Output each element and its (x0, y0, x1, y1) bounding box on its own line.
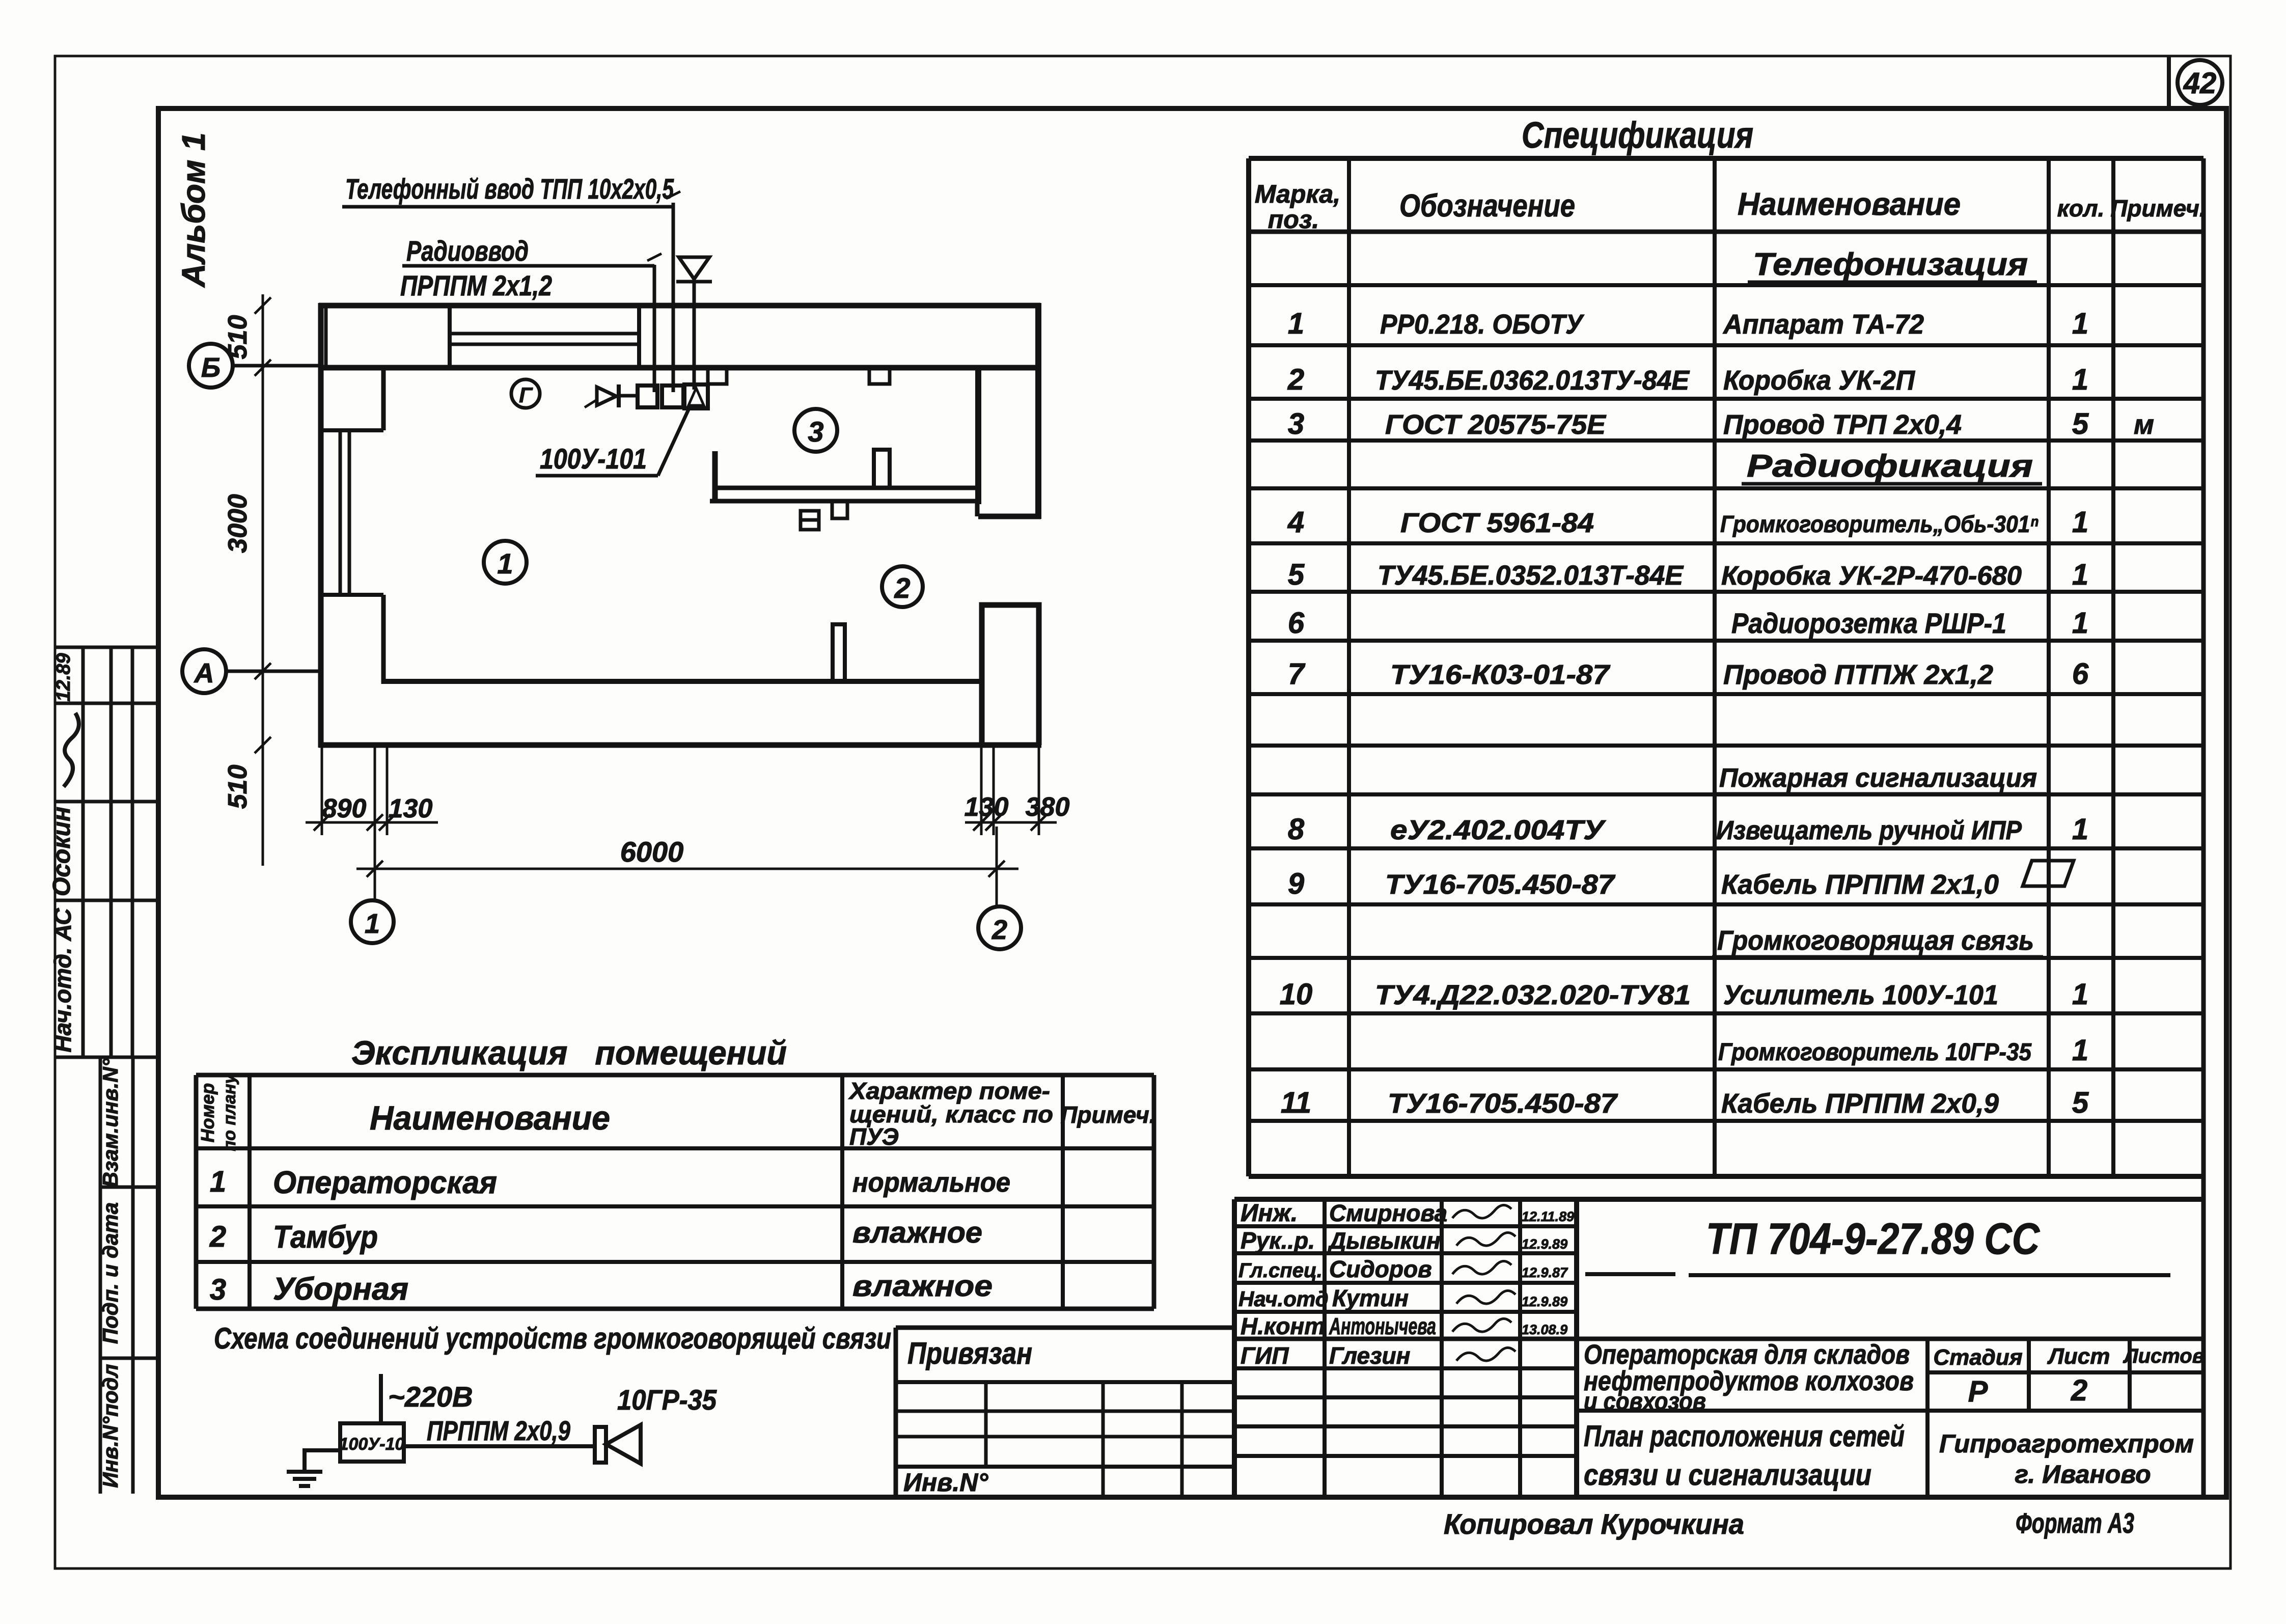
svg-text:Телефонизация: Телефонизация (1753, 247, 2028, 282)
svg-text:ТУ45.БЕ.0362.013ТУ-84Е: ТУ45.БЕ.0362.013ТУ-84Е (1375, 365, 1690, 396)
svg-text:380: 380 (1026, 792, 1070, 822)
svg-text:Экспликация помещений: Экспликация помещений (351, 1034, 787, 1071)
amplifier 100У-101 box (340, 1423, 404, 1462)
svg-text:м: м (2134, 409, 2154, 440)
svg-text:Нач.отд: Нач.отд (1238, 1287, 1329, 1311)
svg-text:1: 1 (2072, 978, 2088, 1011)
svg-text:ГОСТ 20575-75Е: ГОСТ 20575-75Е (1385, 409, 1607, 440)
wall: top exterior inner face (axis Б) (319, 365, 1040, 371)
svg-text:Схема соединений устройств гро: Схема соединений устройств громкоговорящ… (214, 1322, 891, 1355)
svg-text:1: 1 (2072, 307, 2088, 340)
svg-text:Инв.N°: Инв.N° (903, 1468, 988, 1497)
wall: right exterior (1035, 303, 1041, 519)
svg-text:Аппарат ТА-72: Аппарат ТА-72 (1722, 309, 1924, 340)
svg-text:5: 5 (2072, 407, 2089, 441)
box УК 3 with speaker (684, 384, 708, 408)
wall: top exterior outer face (319, 303, 1040, 309)
svg-text:Марка,: Марка, (1255, 180, 1340, 208)
svg-text:ТУ16-705.450-87: ТУ16-705.450-87 (1385, 869, 1616, 900)
svg-text:Громкоговоритель„Обь-301ⁿ: Громкоговоритель„Обь-301ⁿ (1720, 511, 2039, 537)
partition: room 3 east (975, 368, 981, 504)
svg-text:100У-101: 100У-101 (540, 443, 647, 475)
svg-text:Н.конт: Н.конт (1241, 1313, 1325, 1339)
svg-text:Глезин: Глезин (1329, 1342, 1410, 1369)
svg-text:~220В: ~220В (388, 1381, 473, 1413)
svg-text:Провод ТРП 2х0,4: Провод ТРП 2х0,4 (1723, 409, 1962, 440)
svg-text:Формат А3: Формат А3 (2016, 1507, 2134, 1539)
loudspeaker 10ГР-35 symbol (595, 1425, 641, 1464)
svg-text:130: 130 (965, 792, 1009, 822)
wall joint left top (324, 306, 328, 368)
svg-text:Провод ПТПЖ 2х1,2: Провод ПТПЖ 2х1,2 (1723, 659, 1993, 690)
left label cells grid (100, 1057, 158, 1494)
svg-text:Б: Б (201, 352, 221, 383)
svg-text:Операторская для складов: Операторская для складов (1584, 1339, 1910, 1370)
svg-text:10ГР-35: 10ГР-35 (617, 1384, 717, 1416)
svg-text:ГИП: ГИП (1241, 1342, 1289, 1369)
svg-text:Дывыкин: Дывыкин (1327, 1227, 1441, 1254)
svg-text:ПУЭ: ПУЭ (849, 1123, 899, 1150)
svg-text:Гипроагротехпром: Гипроагротехпром (1939, 1429, 2194, 1458)
svg-text:4: 4 (1287, 506, 1304, 539)
telephone symbol (597, 387, 616, 405)
left stamp grid (55, 647, 158, 1057)
svg-text:1: 1 (2072, 363, 2088, 396)
svg-text:Стадия: Стадия (1933, 1345, 2022, 1370)
svg-text:Извещатель ручной ИПР: Извещатель ручной ИПР (1716, 816, 2022, 845)
axis circle Г (511, 379, 540, 408)
svg-text:Осокин: Осокин (48, 807, 75, 896)
stamp signature squiggle (64, 713, 79, 787)
svg-text:5: 5 (1288, 558, 1305, 591)
signature squiggles (1452, 1205, 1511, 1218)
svg-text:2: 2 (894, 572, 910, 604)
svg-text:Копировал Курочкина: Копировал Курочкина (1444, 1508, 1744, 1540)
partition jog to corridor bottom (975, 501, 980, 516)
svg-text:Громкоговорящая связь: Громкоговорящая связь (1717, 925, 2034, 956)
svg-text:ПРППМ 2х1,2: ПРППМ 2х1,2 (400, 269, 552, 301)
svg-text:Листов: Листов (2123, 1345, 2205, 1367)
svg-text:кол.: кол. (2057, 195, 2105, 222)
svg-text:Пожарная сигнализация: Пожарная сигнализация (1719, 763, 2037, 793)
svg-text:1: 1 (1288, 307, 1304, 340)
svg-text:6: 6 (1288, 607, 1305, 640)
svg-text:12.89: 12.89 (53, 653, 74, 701)
svg-text:Кутин: Кутин (1332, 1285, 1409, 1311)
svg-text:1: 1 (2072, 1034, 2088, 1067)
svg-text:3000: 3000 (223, 494, 253, 553)
partition: room 3 south upper line (715, 486, 978, 490)
door notch top wall A (708, 368, 727, 384)
svg-text:1: 1 (210, 1165, 226, 1198)
door notch top wall B (869, 368, 890, 384)
svg-text:ТУ4.Д22.032.020-ТУ81: ТУ4.Д22.032.020-ТУ81 (1375, 980, 1691, 1010)
drawing frame (158, 108, 2226, 1497)
loudspeaker symbol plan (679, 257, 709, 279)
svg-text:Телефонный ввод ТПП 10х2х0,5: Телефонный ввод ТПП 10х2х0,5 (345, 173, 674, 205)
svg-text:нормальное: нормальное (852, 1167, 1010, 1198)
stall pier room 3 (874, 450, 890, 488)
svg-text:Антонычева: Антонычева (1329, 1313, 1436, 1339)
svg-text:и совхозов: и совхозов (1584, 1388, 1706, 1415)
svg-text:12.9.89: 12.9.89 (1522, 1294, 1567, 1309)
window jamb top wall left (448, 306, 452, 368)
svg-text:Кабель ПРППМ 2х0,9: Кабель ПРППМ 2х0,9 (1721, 1088, 1999, 1119)
svg-text:Коробка УК-2Р-470-680: Коробка УК-2Р-470-680 (1721, 561, 2022, 591)
parallelogram symbol kol row 9 (2023, 861, 2074, 886)
svg-text:Рук..р.: Рук..р. (1241, 1227, 1315, 1254)
svg-text:1: 1 (2072, 813, 2088, 846)
right part cells (1925, 1339, 1930, 1497)
svg-text:Г: Г (519, 383, 533, 407)
svg-text:План расположения сетей: План расположения сетей (1584, 1420, 1905, 1453)
svg-text:Нач.отд. АС: Нач.отд. АС (49, 908, 76, 1053)
svg-text:Р: Р (1968, 1375, 1988, 1408)
svg-text:Характер поме-: Характер поме- (848, 1078, 1050, 1104)
wire to ground (305, 1450, 340, 1472)
window jamb top wall right (637, 306, 641, 368)
signature rows (1234, 1224, 1577, 1228)
spec grid horizontals (1249, 156, 2204, 161)
wall: corridor bottom (978, 514, 1041, 519)
wire amplifier to loudspeaker (404, 1444, 597, 1448)
svg-text:Привязан: Привязан (907, 1336, 1032, 1370)
signature columns (1323, 1199, 1327, 1497)
svg-text:ТУ16-705.450-87: ТУ16-705.450-87 (1388, 1088, 1618, 1119)
pier stub room 2 (833, 624, 845, 681)
svg-text:Уборная: Уборная (273, 1272, 408, 1307)
svg-text:1: 1 (2072, 558, 2088, 591)
svg-text:Смирнова: Смирнова (1329, 1200, 1447, 1226)
svg-text:6: 6 (2072, 657, 2089, 691)
svg-text:Гл.спец.: Гл.спец. (1238, 1259, 1323, 1282)
svg-text:поз.: поз. (1268, 205, 1319, 234)
svg-text:Номер: Номер (197, 1083, 218, 1143)
porch walls bottom right (982, 605, 1039, 745)
svg-text:еУ2.402.004ТУ: еУ2.402.004ТУ (1390, 815, 1606, 845)
box УК 1 (638, 386, 657, 407)
svg-text:9: 9 (1288, 867, 1304, 900)
wall: left exterior inner face upper (381, 368, 386, 430)
room circle 1 (484, 541, 527, 584)
svg-text:Подп. и дата: Подп. и дата (98, 1202, 122, 1344)
svg-text:Наименование: Наименование (370, 1099, 610, 1137)
axis circle Б (189, 344, 321, 388)
explication grid (196, 1073, 1154, 1078)
riser top ticks (666, 191, 680, 199)
sheet number circle 42 (2178, 60, 2222, 105)
svg-text:РР0.218. ОБОТУ: РР0.218. ОБОТУ (1380, 309, 1584, 340)
svg-text:7: 7 (1288, 657, 1306, 691)
svg-text:3: 3 (808, 416, 823, 448)
svg-text:1: 1 (365, 909, 380, 939)
svg-text:Лист: Лист (2047, 1344, 2110, 1369)
svg-text:г. Иваново: г. Иваново (2015, 1460, 2151, 1489)
svg-text:ГОСТ 5961-84: ГОСТ 5961-84 (1400, 508, 1594, 538)
svg-text:Наименование: Наименование (1738, 187, 1961, 222)
left dimension chain line (255, 294, 271, 866)
window glazing left wall (339, 430, 342, 595)
svg-text:10: 10 (1280, 978, 1313, 1011)
svg-text:2: 2 (1287, 363, 1304, 396)
svg-text:1: 1 (2072, 607, 2088, 640)
svg-text:Радиорозетка РШР-1: Радиорозетка РШР-1 (1731, 607, 2006, 639)
wall: left exterior inner face lower (381, 595, 386, 684)
svg-text:А: А (194, 658, 214, 689)
svg-text:890: 890 (322, 794, 367, 823)
svg-text:Сидоров: Сидоров (1329, 1256, 1432, 1282)
axis circle 2 bottom (978, 906, 1021, 949)
svg-text:Альбом 1: Альбом 1 (175, 132, 212, 288)
loudspeaker stem (693, 283, 696, 390)
window glazing top wall (450, 332, 639, 336)
svg-text:Коробка УК-2П: Коробка УК-2П (1723, 365, 1915, 396)
svg-text:влажное: влажное (852, 1270, 993, 1303)
svg-text:ТП 704-9-27.89 СС: ТП 704-9-27.89 СС (1706, 1215, 2041, 1263)
svg-text:ПРППМ 2х0,9: ПРППМ 2х0,9 (427, 1416, 570, 1446)
sheet number box (2167, 56, 2171, 108)
svg-text:11: 11 (1281, 1086, 1311, 1119)
svg-text:12.9.87: 12.9.87 (1522, 1265, 1568, 1280)
svg-text:42: 42 (2183, 67, 2217, 100)
wire 220V (379, 1374, 383, 1423)
svg-text:100У-10: 100У-10 (339, 1435, 405, 1454)
svg-text:2: 2 (209, 1220, 226, 1253)
svg-text:13.08.9: 13.08.9 (1522, 1322, 1567, 1337)
wall: bottom interior face (383, 679, 980, 684)
svg-text:510: 510 (223, 765, 253, 809)
wire telephone to box (620, 394, 638, 398)
ground symbol (287, 1472, 322, 1486)
svg-text:по плану: по плану (220, 1073, 239, 1151)
svg-text:Тамбур: Тамбур (273, 1220, 378, 1255)
svg-text:510: 510 (223, 315, 253, 360)
svg-text:ТУ16-К03-01-87: ТУ16-К03-01-87 (1390, 659, 1611, 690)
svg-text:12.9.89: 12.9.89 (1522, 1236, 1567, 1252)
svg-text:Спецификация: Спецификация (1522, 115, 1753, 156)
svg-text:12.11.89: 12.11.89 (1522, 1209, 1574, 1224)
svg-text:ТУ45.БЕ.0352.013Т-84Е: ТУ45.БЕ.0352.013Т-84Е (1378, 560, 1684, 591)
svg-text:5: 5 (2072, 1086, 2089, 1119)
window jamb left wall top (321, 428, 383, 432)
svg-text:3: 3 (1288, 407, 1304, 441)
wall: left exterior outer face (318, 303, 324, 748)
svg-text:Обозначение: Обозначение (1399, 188, 1575, 224)
window jamb left wall bottom (321, 593, 383, 597)
radio socket symbol РШР-1 (801, 511, 819, 530)
svg-text:2: 2 (2071, 1374, 2087, 1407)
svg-text:Примеч.: Примеч. (2110, 195, 2206, 222)
svg-text:Усилитель 100У-101: Усилитель 100У-101 (1723, 980, 1998, 1010)
svg-text:Примеч.: Примеч. (1060, 1102, 1155, 1128)
svg-text:Инв.N°подл: Инв.N°подл (98, 1364, 122, 1488)
svg-text:2: 2 (991, 915, 1007, 945)
bottom dimension extension lines (306, 745, 1057, 907)
svg-text:3: 3 (210, 1273, 226, 1306)
partition: room 3 west stub (712, 451, 718, 501)
svg-text:связи и сигнализации: связи и сигнализации (1584, 1458, 1871, 1492)
axis circle 1 bottom (351, 900, 394, 943)
svg-text:1: 1 (2072, 506, 2088, 539)
svg-text:Радиофикация: Радиофикация (1747, 449, 2033, 484)
axis circle А (182, 649, 321, 693)
svg-text:влажное: влажное (852, 1216, 982, 1249)
svg-text:6000: 6000 (620, 836, 684, 868)
telephone entry riser (672, 203, 675, 392)
box УК 2 (662, 386, 683, 407)
svg-text:Кабель ПРППМ 2х1,0: Кабель ПРППМ 2х1,0 (1721, 869, 1999, 900)
room circle 2 (882, 566, 923, 607)
door notch lower partition (832, 501, 847, 518)
room circle 3 (794, 409, 837, 452)
partition: room 3 south lower line (710, 499, 977, 504)
wall: bottom exterior face (319, 742, 1041, 748)
radio entry riser (653, 265, 656, 392)
svg-text:Громкоговоритель 10ГР-35: Громкоговоритель 10ГР-35 (1718, 1039, 2032, 1066)
svg-text:1: 1 (497, 547, 513, 580)
svg-text:Радиоввод: Радиоввод (406, 235, 529, 267)
svg-text:Взам.инв.N°: Взам.инв.N° (98, 1058, 122, 1187)
svg-text:130: 130 (389, 794, 433, 823)
svg-text:8: 8 (1288, 813, 1305, 846)
svg-text:Инж.: Инж. (1241, 1200, 1298, 1227)
title block outline (1234, 1197, 2204, 1202)
svg-text:Операторская: Операторская (273, 1165, 497, 1200)
spec grid verticals (1246, 158, 1251, 1176)
